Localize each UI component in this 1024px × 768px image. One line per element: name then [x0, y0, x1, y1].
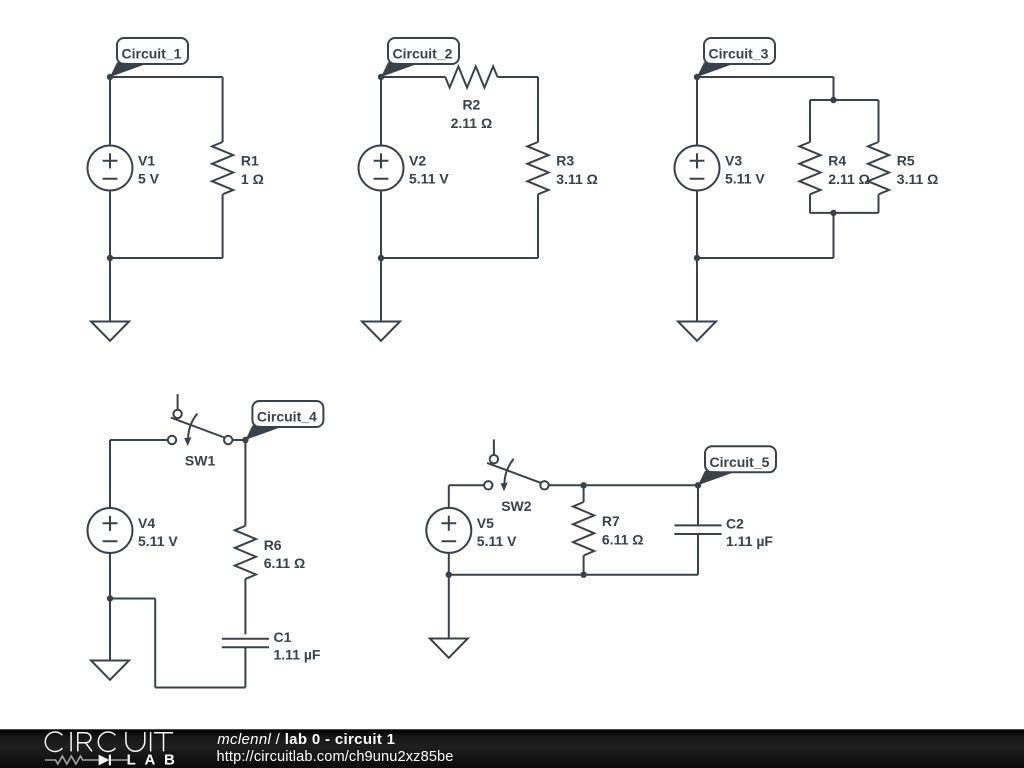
wire SW2 right terminal to C2 branch [549, 484, 698, 486]
svg-text:3.11 Ω: 3.11 Ω [556, 171, 598, 187]
wire Circuit_4 top from V4 to SW1 [110, 439, 168, 441]
resistor R1 [212, 142, 233, 194]
ground Circuit_4 [91, 661, 129, 680]
wire V5 top lead [448, 485, 450, 508]
svg-text:2.11 Ω: 2.11 Ω [451, 115, 493, 131]
node Circuit_5 R7 top junction [580, 482, 586, 488]
net flag Circuit_4 pointer [245, 425, 281, 440]
wire V3 top lead [696, 77, 698, 146]
resistor R3 [527, 142, 548, 194]
svg-text:5.11 V: 5.11 V [409, 171, 449, 187]
wire ground stem Circuit_2 [380, 258, 382, 322]
switch SW1 top terminal [173, 410, 181, 418]
node Circuit_4 SW1 output junction [242, 437, 248, 443]
svg-text:1.11 µF: 1.11 µF [274, 646, 321, 662]
ground Circuit_5 [430, 639, 468, 658]
svg-text:C1: C1 [274, 629, 292, 645]
node Circuit_2 bottom junction [378, 255, 384, 261]
wire Circuit_2 right branch lower [537, 194, 539, 258]
switch SW2 top terminal [490, 455, 498, 463]
wire Circuit_2 top left of R2 [381, 76, 445, 78]
resistor R5 [868, 142, 889, 194]
net flag Circuit_5 pointer [698, 471, 734, 486]
net flag Circuit_3 pointer [697, 62, 733, 77]
switch SW2 blade [487, 463, 540, 483]
node parallel pair bottom junction [830, 210, 836, 216]
voltage source V5 [426, 508, 471, 553]
net flag Circuit_2 pointer [381, 62, 417, 77]
wire V1 bottom lead [109, 191, 111, 259]
wire R5 bottom lead [878, 194, 880, 213]
wire Circuit_5 bottom rail [449, 574, 698, 576]
svg-text:V5: V5 [477, 515, 494, 531]
wire R7 top lead [583, 485, 585, 502]
svg-text:1.11 µF: 1.11 µF [726, 533, 773, 549]
svg-text:R4: R4 [828, 153, 846, 169]
net flag Circuit_3 box [704, 38, 775, 64]
wire R4 top lead [809, 100, 811, 142]
svg-text:http://circuitlab.com/ch9unu2x: http://circuitlab.com/ch9unu2xz85be [217, 749, 454, 765]
svg-text:3.11 Ω: 3.11 Ω [897, 171, 939, 187]
net flag Circuit_1 pointer [110, 62, 146, 77]
wire V4 bottom lead [109, 553, 111, 599]
svg-text:2.11 Ω: 2.11 Ω [828, 171, 870, 187]
svg-text:6.11 Ω: 6.11 Ω [602, 531, 644, 547]
svg-text:R7: R7 [602, 513, 620, 529]
switch SW2 actuation arrow [501, 459, 514, 492]
net flag Circuit_5 box [705, 446, 776, 472]
wire C2 bottom lead [697, 534, 699, 575]
wire R6 top lead [244, 440, 246, 526]
switch SW2 left terminal [484, 481, 492, 489]
wire ground stem Circuit_4 [109, 599, 111, 661]
wire Circuit_5 top from V5 to SW2 [449, 484, 484, 486]
wire ground stem Circuit_1 [109, 258, 111, 322]
node Circuit_5 bottom left junction [446, 572, 452, 578]
wire Circuit_1 right branch lower [222, 194, 224, 258]
node Circuit_3 bottom junction [694, 255, 700, 261]
wire R6 to C1 [244, 579, 246, 634]
wire ground stem Circuit_3 [696, 258, 698, 322]
svg-text:1 Ω: 1 Ω [241, 171, 264, 187]
wire Circuit_4 return to V4 [110, 598, 155, 600]
svg-text:V3: V3 [725, 153, 742, 169]
wire Circuit_1 top [110, 76, 223, 78]
svg-text:Circuit_3: Circuit_3 [709, 46, 769, 62]
wire R5 top lead [878, 100, 880, 142]
svg-text:Circuit_2: Circuit_2 [393, 46, 453, 62]
svg-text:R1: R1 [241, 153, 259, 169]
wire parallel pair top rail [810, 99, 879, 101]
switch SW2 right terminal [540, 481, 548, 489]
node parallel pair top junction [830, 97, 836, 103]
svg-text:6.11 Ω: 6.11 Ω [264, 555, 306, 571]
capacitor C2 [674, 525, 721, 534]
svg-text:R2: R2 [462, 96, 480, 112]
svg-text:SW2: SW2 [501, 498, 532, 514]
voltage source V2 [359, 146, 404, 191]
svg-text:mclennl / lab 0 - circuit 1: mclennl / lab 0 - circuit 1 [217, 731, 395, 748]
wire Circuit_3 top drop to parallel pair [833, 77, 835, 100]
wire Circuit_1 bottom [110, 257, 223, 259]
switch SW1 terminal stub [177, 394, 179, 409]
wire C2 top lead [697, 485, 699, 525]
svg-text:V2: V2 [409, 153, 426, 169]
wire ground stem Circuit_5 [448, 575, 450, 639]
switch SW1 left terminal [168, 436, 176, 444]
svg-text:5.11 V: 5.11 V [477, 533, 517, 549]
wire Circuit_4 return bottom [155, 687, 245, 689]
wire SW1 right terminal to node [232, 439, 245, 441]
resistor R6 [235, 526, 256, 579]
node Circuit_5 C2 top junction [695, 482, 701, 488]
wire Circuit_3 bottom [697, 257, 834, 259]
switch SW1 right terminal [224, 436, 232, 444]
wire V2 bottom lead [380, 191, 382, 259]
svg-text:R3: R3 [556, 153, 574, 169]
wire Circuit_2 top right of R2 [498, 76, 539, 78]
node Circuit_4 bottom junction [107, 595, 113, 601]
ground Circuit_1 [91, 322, 129, 341]
svg-text:Circuit_4: Circuit_4 [257, 409, 317, 425]
resistor R7 [573, 502, 594, 556]
ground Circuit_2 [362, 322, 400, 341]
wire Circuit_2 bottom [381, 257, 538, 259]
svg-text:C2: C2 [726, 516, 744, 532]
svg-text:V1: V1 [138, 153, 155, 169]
node Circuit_1 bottom junction [107, 255, 113, 261]
node Circuit_1 top junction [107, 74, 113, 80]
wire parallel pair bottom rail [810, 212, 879, 214]
wire V1 top lead [109, 77, 111, 146]
svg-text:R6: R6 [264, 537, 282, 553]
wire parallel pair drop to bottom [833, 213, 835, 258]
net flag Circuit_1 box [117, 38, 188, 64]
logo CIRCUIT wordmark [45, 732, 173, 752]
svg-text:Circuit_5: Circuit_5 [710, 454, 770, 470]
logo resistor-diode glyph [45, 755, 128, 766]
wire V2 top lead [380, 77, 382, 146]
wire V4 top lead [109, 440, 111, 508]
voltage source V1 [88, 146, 133, 191]
switch SW1 blade [171, 418, 225, 438]
wire Circuit_1 right branch upper [222, 77, 224, 142]
wire V5 bottom lead [448, 553, 450, 575]
node Circuit_3 top junction [694, 74, 700, 80]
wire R4 bottom lead [809, 194, 811, 213]
node Circuit_5 R7 bottom junction [580, 572, 586, 578]
resistor R4 [799, 142, 820, 194]
svg-text:V4: V4 [138, 515, 155, 531]
wire R7 bottom lead [583, 556, 585, 575]
svg-text:R5: R5 [897, 153, 915, 169]
capacitor C1 [222, 639, 269, 648]
resistor R2 [445, 66, 497, 87]
voltage source V4 [88, 508, 133, 553]
svg-text:5.11 V: 5.11 V [138, 533, 178, 549]
wire Circuit_2 right branch upper [537, 77, 539, 142]
wire Circuit_4 return riser [154, 599, 156, 688]
net flag Circuit_2 box [388, 38, 459, 64]
wire V3 bottom lead [696, 191, 698, 259]
switch SW1 actuation arrow [184, 414, 197, 447]
wire C1 bottom lead [244, 647, 246, 687]
svg-text:SW1: SW1 [185, 453, 216, 469]
svg-text:5.11 V: 5.11 V [725, 171, 765, 187]
svg-text:5 V: 5 V [138, 171, 160, 187]
switch SW2 terminal stub [493, 439, 495, 454]
net flag Circuit_4 box [252, 401, 323, 427]
footer bar background [0, 729, 1024, 768]
svg-text:LAB: LAB [127, 752, 184, 768]
voltage source V3 [675, 146, 720, 191]
node Circuit_2 top junction [378, 74, 384, 80]
svg-text:Circuit_1: Circuit_1 [122, 46, 182, 62]
ground Circuit_3 [678, 322, 716, 341]
wire Circuit_3 top [697, 76, 834, 78]
